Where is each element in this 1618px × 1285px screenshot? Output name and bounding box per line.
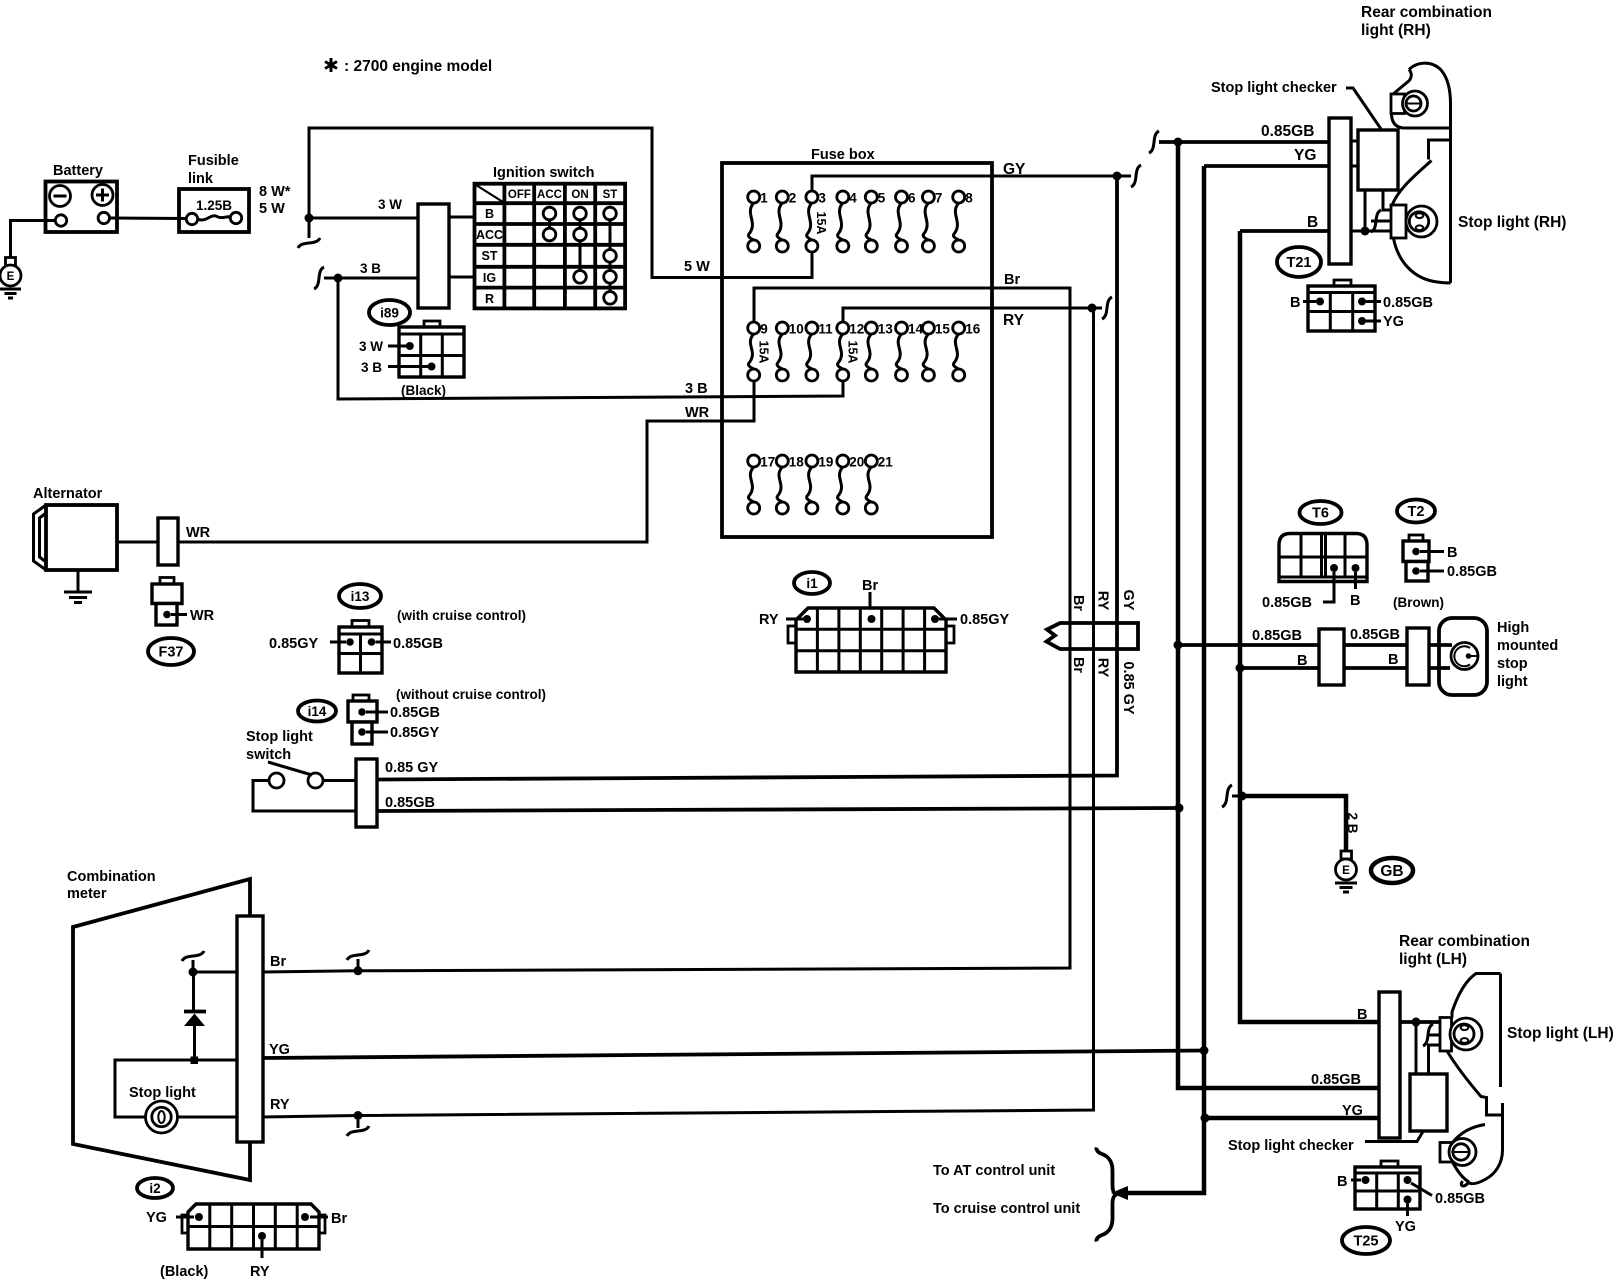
svg-text:3: 3 [818, 191, 826, 206]
svg-text:i1: i1 [806, 576, 818, 591]
svg-text:Br: Br [1070, 595, 1086, 611]
connector tick on tail stub [1371, 210, 1381, 232]
svg-text:GY: GY [1003, 161, 1026, 178]
svg-text:OFF: OFF [508, 189, 531, 201]
svg-text:(Black): (Black) [401, 383, 446, 398]
wire GY from fuse 3 [812, 176, 1117, 191]
svg-text:Br: Br [1070, 657, 1086, 673]
svg-text:Br: Br [270, 954, 286, 970]
wire bar to table stub B row [449, 216, 475, 219]
svg-text:0.85GB: 0.85GB [390, 705, 440, 721]
i2 oval [137, 1178, 173, 1198]
connector tick left of ground branch junction [1222, 785, 1238, 807]
svg-text:(without cruise control): (without cruise control) [396, 687, 546, 702]
wire B vertical trunk [1240, 231, 1379, 1022]
wire 2B ground branch [1242, 796, 1346, 851]
fuse 14 [896, 322, 924, 382]
wire top bus to fuse box 5W [309, 128, 812, 278]
svg-text:WR: WR [186, 525, 211, 541]
svg-text:Br: Br [331, 1211, 347, 1227]
node B ground branch junction [1238, 792, 1247, 801]
wire B after LH bar [1400, 1020, 1440, 1024]
tail light bulb (RH) socket [1391, 94, 1405, 114]
fuse 17 [748, 455, 776, 515]
svg-text:0.85GB: 0.85GB [1350, 627, 1400, 643]
svg-text:YG: YG [1383, 314, 1404, 330]
wire junction to ignition switch 3W [309, 217, 418, 220]
svg-text:3 B: 3 B [361, 360, 382, 375]
svg-text:YG: YG [269, 1042, 290, 1058]
fuse 2 [776, 191, 796, 253]
wire 0.85GB switch to trunk [377, 808, 1179, 811]
svg-text:11: 11 [818, 322, 833, 337]
svg-text:ON: ON [571, 189, 588, 201]
fuse 7 [922, 191, 942, 253]
svg-text:1: 1 [760, 191, 768, 206]
node RY junction [1088, 304, 1097, 313]
T21 oval [1277, 247, 1321, 277]
T2 oval [1397, 500, 1435, 523]
wire B to high mounted stop light [1240, 666, 1450, 670]
svg-text:YG: YG [1342, 1103, 1363, 1119]
wire Br inside meter [193, 971, 237, 974]
svg-text:T2: T2 [1408, 504, 1425, 520]
bracket to control units [1096, 1148, 1117, 1242]
fuse 11 [806, 322, 833, 382]
svg-text:Battery: Battery [53, 163, 103, 179]
ignition switch table [475, 184, 626, 309]
svg-text:0.85GB: 0.85GB [1261, 123, 1314, 140]
stop light switch arm [268, 762, 312, 775]
arrow to control units [1111, 1186, 1128, 1200]
svg-text:5 W: 5 W [259, 201, 285, 217]
svg-text:Br: Br [862, 578, 878, 594]
stop light bulb (RH) socket [1391, 205, 1406, 238]
fuse box [722, 163, 992, 537]
svg-text:0.85GB: 0.85GB [1262, 595, 1312, 611]
fuse 20 [837, 455, 865, 515]
svg-text:RY: RY [759, 612, 779, 628]
svg-text:Stop light: Stop light [246, 729, 313, 745]
stop light switch contacts [269, 773, 284, 788]
stop light checker (RH) [1358, 130, 1398, 190]
connector tick above Br meter junction [182, 951, 204, 968]
node YG meter junction [1200, 1046, 1209, 1055]
svg-text:20: 20 [849, 455, 864, 470]
node 0.85GB to high mounted stop light [1174, 641, 1183, 650]
connector tick below junction [298, 222, 320, 248]
svg-text:High: High [1497, 620, 1529, 636]
stop light bulb (LH) [1450, 1018, 1482, 1050]
svg-text:Stop light: Stop light [129, 1085, 196, 1101]
node 3B junction [334, 274, 343, 283]
i14 connector [348, 695, 440, 744]
ignition switch contacts [543, 207, 616, 304]
svg-text:link: link [188, 171, 214, 187]
wire 0.85GB vertical trunk [1178, 142, 1379, 1088]
svg-text:B: B [1307, 214, 1318, 231]
connector bar (LH) [1379, 992, 1400, 1138]
svg-text:T25: T25 [1354, 1234, 1379, 1250]
diode [184, 972, 206, 1057]
svg-text:(with cruise control): (with cruise control) [397, 608, 526, 623]
svg-text:ACC: ACC [537, 189, 562, 201]
svg-text:16: 16 [965, 322, 981, 337]
stop light bulb (RH) [1406, 206, 1437, 237]
svg-text:8 W*: 8 W* [259, 184, 291, 200]
svg-text:13: 13 [878, 322, 894, 337]
wire YG feed (top right) [1204, 164, 1329, 168]
wire YG vertical trunk [1126, 166, 1204, 1193]
node RY meter output junction [354, 1111, 363, 1120]
wire B to stop bulb socket (RH) [1351, 230, 1391, 233]
fuse 13 [865, 322, 893, 382]
wire Br from fuse 9 to combination meter [263, 288, 1070, 972]
svg-text:WR: WR [190, 608, 215, 624]
svg-text:light (RH): light (RH) [1361, 22, 1431, 39]
svg-text:0.85 GY: 0.85 GY [1120, 661, 1136, 715]
wire battery positive to fusible link [110, 217, 187, 221]
svg-text:0.85GB: 0.85GB [1383, 295, 1433, 311]
fuse 16 [953, 322, 981, 382]
i89 connector [359, 321, 464, 398]
svg-text:15A: 15A [814, 212, 828, 235]
fuse 1 [748, 191, 769, 253]
wire B (RH) horizontal [1240, 229, 1329, 233]
ignition switch contact links [550, 214, 611, 298]
svg-text:17: 17 [760, 455, 775, 470]
node B to high mounted stop light [1236, 664, 1245, 673]
svg-text:9: 9 [760, 322, 768, 337]
connector bar (stop light switch) [356, 759, 377, 827]
svg-text:(Black): (Black) [160, 1264, 209, 1280]
svg-text:WR: WR [685, 405, 710, 421]
fuse 3 [806, 191, 827, 253]
svg-text:RY: RY [1095, 591, 1111, 611]
svg-text:12: 12 [849, 322, 864, 337]
wire tail feed stub (RH) [1371, 220, 1391, 223]
node 0.85GB switch junction [1175, 804, 1184, 813]
wire checker to B node (RH) [1364, 190, 1367, 231]
node Br meter junction [189, 968, 198, 977]
i1 connector [759, 578, 1009, 672]
svg-text:i89: i89 [380, 306, 399, 321]
svg-text:T6: T6 [1312, 506, 1329, 522]
connector tick right of GY junction [1121, 165, 1141, 187]
svg-text:ACC: ACC [476, 228, 503, 242]
wire RY from fuse 12 to combination meter [263, 308, 1094, 1117]
svg-text:i2: i2 [149, 1181, 160, 1196]
connector tick above Br output junction [347, 950, 369, 967]
fuse 6 [896, 191, 917, 253]
wire bar-checker stub 2 [1351, 165, 1359, 168]
svg-text:light (LH): light (LH) [1399, 951, 1467, 968]
svg-text:GB: GB [1380, 863, 1403, 880]
svg-text:Alternator: Alternator [33, 486, 103, 502]
svg-text:0.85GY: 0.85GY [390, 725, 439, 741]
wire bulb to bar RY [178, 1116, 238, 1119]
svg-text:Rear combination: Rear combination [1361, 4, 1492, 21]
fuse 8 [953, 191, 974, 253]
i2 connector [146, 1204, 347, 1280]
svg-text:Stop light (RH): Stop light (RH) [1458, 214, 1566, 231]
high mounted stop light housing [1439, 618, 1487, 695]
wire GY vertical and 0.85GY to stop light switch [377, 176, 1117, 780]
T21 connector bar [1329, 118, 1351, 264]
svg-text:Rear combination: Rear combination [1399, 933, 1530, 950]
svg-text:15: 15 [935, 322, 951, 337]
svg-text:5 W: 5 W [684, 259, 710, 275]
ground E (2B) [1335, 851, 1357, 892]
svg-text:Stop light (LH): Stop light (LH) [1507, 1025, 1614, 1042]
svg-text:10: 10 [789, 322, 804, 337]
ignition switch connector bar [418, 204, 449, 308]
svg-text:3 B: 3 B [685, 381, 708, 397]
node checker/B junction [1361, 227, 1370, 236]
connector bar (HMSL 2) [1407, 628, 1429, 685]
connector bar (combination meter) [237, 916, 263, 1142]
svg-text:0.85GB: 0.85GB [385, 795, 435, 811]
T25 oval [1342, 1227, 1390, 1254]
wire 0.85GB to high mounted stop light [1178, 643, 1452, 647]
svg-text:7: 7 [935, 191, 943, 206]
wire YG meter to trunk [263, 1051, 1204, 1059]
node GY junction [1113, 172, 1122, 181]
connector tick left of 3B junction [314, 267, 334, 289]
node Br meter output junction [354, 966, 363, 975]
svg-text:3 W: 3 W [378, 197, 402, 212]
wire stop light switch loop [253, 781, 356, 812]
svg-text:B: B [1297, 653, 1307, 669]
wire tail feed stub (LH) [1427, 1034, 1440, 1037]
T2 connector [1393, 535, 1497, 610]
i13 connector [269, 621, 443, 674]
svg-text:0.85GB: 0.85GB [1311, 1072, 1361, 1088]
svg-text:YG: YG [1294, 147, 1316, 164]
stop light bulb (LH) socket [1440, 1018, 1452, 1052]
i14 oval [298, 701, 336, 722]
connector bar (HMSL 1) [1319, 629, 1344, 685]
svg-text:8: 8 [965, 191, 973, 206]
fuse 4 [837, 191, 858, 253]
fuse 19 [806, 455, 834, 515]
i89 oval [369, 300, 410, 325]
svg-text:ST: ST [482, 249, 498, 263]
stop light checker (LH) [1410, 1074, 1447, 1131]
stop light bulb (meter) [146, 1101, 178, 1133]
svg-text:Ignition switch: Ignition switch [493, 165, 595, 181]
svg-text:RY: RY [270, 1097, 290, 1113]
wire checker lead 2 (LH) [1429, 1045, 1441, 1074]
svg-text:mounted: mounted [1497, 638, 1558, 654]
T21 connector block [1290, 280, 1433, 331]
svg-text:2: 2 [789, 191, 797, 206]
svg-text:19: 19 [818, 455, 833, 470]
T25 connector [1337, 1161, 1485, 1235]
fusible link [179, 153, 249, 232]
svg-text:F37: F37 [159, 645, 184, 661]
label pointer stop light checker (LH) [1365, 1132, 1423, 1142]
wire checker to stop bulb (RH) [1383, 190, 1391, 210]
wire bar to table stub IG row [449, 276, 475, 279]
svg-text:0.85GY: 0.85GY [269, 636, 318, 652]
battery [46, 163, 118, 232]
svg-text:: 2700 engine model: : 2700 engine model [344, 58, 492, 75]
svg-text:15A: 15A [846, 341, 860, 364]
high mounted stop light bulb [1451, 643, 1478, 670]
svg-text:ST: ST [603, 189, 618, 201]
wire 0.85GB feed (top right) [1159, 140, 1329, 144]
svg-text:0.85 GY: 0.85 GY [385, 760, 439, 776]
svg-text:B: B [1290, 295, 1300, 311]
svg-text:18: 18 [789, 455, 805, 470]
svg-text:switch: switch [246, 747, 291, 763]
node B checker junction (LH) [1412, 1018, 1421, 1027]
svg-text:15A: 15A [757, 341, 771, 364]
svg-text:B: B [485, 207, 494, 221]
fuse 10 [776, 322, 804, 382]
svg-text:YG: YG [146, 1210, 167, 1226]
node 0.85GB junction [1174, 138, 1183, 147]
F37 oval [148, 638, 194, 665]
connector tick below RY output junction [347, 1120, 369, 1136]
wire YG to LH bar [1205, 1116, 1379, 1121]
svg-text:6: 6 [908, 191, 916, 206]
wire battery negative to ground [11, 221, 56, 258]
wire checker lead 1 (LH) [1415, 1022, 1418, 1074]
fuse 21 [865, 455, 893, 515]
i1 oval [794, 572, 830, 594]
node battery feed junction [305, 214, 314, 223]
svg-text:Fusible: Fusible [188, 153, 239, 169]
svg-text:(Brown): (Brown) [1393, 595, 1444, 610]
node YG LH tee [1201, 1114, 1210, 1123]
svg-text:RY: RY [1003, 312, 1025, 329]
svg-text:light: light [1497, 674, 1528, 690]
svg-text:0.85GB: 0.85GB [1435, 1191, 1485, 1207]
svg-text:T21: T21 [1287, 255, 1312, 271]
tail light bulb (LH) [1449, 1139, 1476, 1166]
svg-text:RY: RY [1095, 658, 1111, 678]
wire bar-checker stub 1 [1351, 140, 1359, 143]
note asterisk 2700 engine model [325, 58, 337, 72]
svg-text:meter: meter [67, 886, 107, 902]
svg-text:RY: RY [250, 1264, 270, 1280]
svg-text:E: E [1342, 865, 1350, 877]
fuse 12 [837, 322, 865, 382]
svg-text:0.85GB: 0.85GB [393, 636, 443, 652]
svg-text:2 B: 2 B [1345, 812, 1360, 833]
svg-text:B: B [1357, 1007, 1367, 1023]
GB oval [1371, 858, 1413, 883]
svg-text:To cruise control unit: To cruise control unit [933, 1201, 1080, 1217]
svg-text:Combination: Combination [67, 869, 156, 885]
svg-text:i14: i14 [308, 704, 327, 719]
svg-text:YG: YG [1395, 1219, 1416, 1235]
svg-text:Stop light checker: Stop light checker [1228, 1138, 1354, 1154]
svg-text:Stop light checker: Stop light checker [1211, 80, 1337, 96]
connector tick on LH tail stub [1423, 1024, 1433, 1046]
svg-text:Br: Br [1004, 272, 1020, 288]
connector bar (alternator WR) [158, 518, 178, 565]
rear combination light (LH) housing [1447, 974, 1503, 1186]
svg-text:1.25B: 1.25B [196, 198, 232, 213]
tail light bulb (RH) [1403, 91, 1428, 116]
svg-text:GY: GY [1120, 590, 1136, 611]
F37 connector [152, 578, 215, 626]
svg-text:B: B [1350, 593, 1360, 609]
svg-text:IG: IG [483, 271, 496, 285]
wire alternator to connector [117, 541, 158, 544]
svg-text:3 W: 3 W [359, 339, 383, 354]
svg-text:21: 21 [878, 455, 894, 470]
T6 oval [1300, 501, 1342, 524]
node diode to YG [191, 1057, 199, 1065]
i13 oval [339, 584, 381, 608]
svg-text:R: R [485, 292, 494, 306]
T6 connector [1262, 534, 1367, 612]
tail light bulb (LH) socket [1440, 1143, 1453, 1163]
svg-text:0.85GY: 0.85GY [960, 612, 1009, 628]
svg-text:5: 5 [878, 191, 886, 206]
connector tick right of RY junction [1096, 297, 1112, 319]
connector tick left of 0.85GB junction [1149, 131, 1159, 153]
svg-text:B: B [1447, 545, 1457, 561]
ground E (battery) [0, 258, 21, 299]
svg-text:E: E [7, 271, 15, 283]
svg-text:i13: i13 [351, 589, 370, 604]
wire switch to connector bar [323, 779, 356, 782]
harness bus bar [1047, 623, 1139, 649]
fuse 15 [922, 322, 950, 382]
label pointer stop light checker (RH) [1346, 88, 1381, 129]
alternator [33, 486, 117, 570]
svg-text:3 B: 3 B [360, 261, 381, 276]
wire WR to fuse box [178, 381, 754, 542]
svg-text:Fuse box: Fuse box [811, 147, 875, 163]
fuse 5 [865, 191, 886, 253]
wire 3B from bar to fuse box [338, 278, 843, 399]
svg-text:0.85GB: 0.85GB [1447, 564, 1497, 580]
svg-text:stop: stop [1497, 656, 1528, 672]
svg-text:4: 4 [849, 191, 857, 206]
svg-text:To AT control unit: To AT control unit [933, 1163, 1055, 1179]
svg-text:B: B [1337, 1174, 1347, 1190]
fuse 18 [776, 455, 804, 515]
fuse 9 [748, 322, 768, 382]
wire YG inside meter and bulb loop [115, 1060, 237, 1117]
svg-text:B: B [1388, 652, 1398, 668]
ground (alternator) [64, 570, 92, 603]
rear combination light (RH) housing [1392, 63, 1451, 283]
svg-text:0.85GB: 0.85GB [1252, 628, 1302, 644]
